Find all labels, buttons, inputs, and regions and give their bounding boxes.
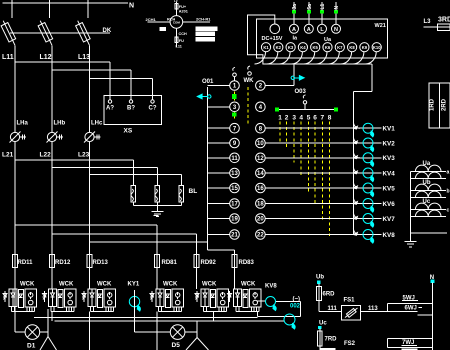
svg-text:FU: FU	[179, 39, 184, 43]
svg-text:KV4: KV4	[383, 170, 396, 177]
svg-text:6: 6	[313, 115, 317, 122]
svg-text:2RD: 2RD	[441, 98, 447, 111]
svg-text:RD12: RD12	[55, 260, 71, 266]
svg-text:K9: K9	[362, 45, 368, 50]
svg-text:RD81: RD81	[162, 260, 178, 266]
svg-text:FS1: FS1	[344, 298, 356, 304]
svg-text:LHb: LHb	[54, 121, 66, 127]
svg-text:a: a	[447, 170, 450, 176]
svg-text:WCK: WCK	[59, 282, 74, 288]
svg-text:C?: C?	[149, 106, 157, 112]
svg-text:A: A	[307, 27, 311, 33]
svg-text:L13: L13	[78, 54, 90, 61]
svg-text:A?: A?	[106, 106, 114, 112]
svg-text:20: 20	[257, 217, 264, 223]
svg-text:5: 5	[307, 115, 311, 122]
svg-text:D5: D5	[172, 342, 181, 349]
svg-text:002: 002	[290, 304, 301, 310]
svg-text:19: 19	[231, 217, 238, 223]
svg-text:KV5: KV5	[383, 185, 396, 192]
svg-text:2CH-R1: 2CH-R1	[196, 16, 211, 21]
svg-text:L1: L1	[320, 3, 326, 9]
svg-text:RD92: RD92	[201, 260, 217, 266]
svg-text:8: 8	[328, 115, 332, 122]
svg-text:13: 13	[231, 171, 238, 177]
svg-text:1: 1	[278, 115, 282, 122]
svg-text:KY1: KY1	[128, 282, 140, 288]
svg-text:FU+: FU+	[179, 5, 187, 9]
svg-text:D1: D1	[27, 343, 36, 350]
svg-text:b: b	[447, 189, 450, 195]
svg-text:O01: O01	[202, 79, 214, 85]
svg-text:(−): (−)	[293, 297, 301, 303]
svg-text:L23: L23	[78, 152, 90, 159]
svg-text:KV2: KV2	[383, 140, 396, 147]
svg-text:6WJ: 6WJ	[405, 306, 417, 312]
svg-text:Ub: Ub	[423, 180, 431, 186]
svg-text:L11: L11	[176, 44, 182, 48]
svg-text:KV7: KV7	[383, 216, 396, 223]
svg-text:K2: K2	[276, 45, 282, 50]
svg-text:WCK: WCK	[97, 282, 112, 288]
svg-text:WK: WK	[244, 78, 255, 84]
svg-text:WCK: WCK	[163, 282, 178, 288]
svg-text:K10: K10	[373, 45, 381, 50]
svg-text:5a: 5a	[307, 4, 313, 10]
svg-text:K1: K1	[263, 45, 269, 50]
svg-text:21: 21	[231, 233, 238, 239]
svg-text:KV8: KV8	[265, 284, 277, 290]
svg-text:W21: W21	[375, 23, 386, 29]
svg-text:17: 17	[231, 202, 238, 208]
svg-text:K3: K3	[288, 45, 294, 50]
svg-text:L22: L22	[40, 152, 52, 159]
svg-text:BL: BL	[189, 188, 198, 195]
svg-text:6RD: 6RD	[323, 292, 336, 298]
svg-text:16: 16	[257, 186, 264, 192]
svg-text:A: A	[292, 27, 296, 33]
svg-text:DC+15V: DC+15V	[262, 36, 283, 42]
svg-text:KV1: KV1	[383, 126, 396, 133]
svg-text:KV8: KV8	[383, 232, 396, 239]
svg-text:N: N	[334, 6, 340, 10]
svg-text:RD83: RD83	[239, 260, 255, 266]
svg-text:RCH: RCH	[167, 17, 175, 21]
svg-text:K4: K4	[300, 45, 306, 50]
svg-text:K8: K8	[349, 45, 355, 50]
svg-text:3RD: 3RD	[438, 17, 450, 24]
svg-text:11: 11	[231, 156, 238, 162]
svg-text:O03: O03	[295, 89, 307, 95]
svg-text:WCK: WCK	[202, 282, 217, 288]
svg-text:K6: K6	[325, 45, 331, 50]
svg-text:FS2: FS2	[344, 341, 356, 347]
svg-text:A201: A201	[179, 10, 188, 14]
svg-text:10: 10	[257, 141, 264, 147]
svg-text:L2: L2	[174, 0, 178, 3]
svg-text:111: 111	[328, 306, 338, 312]
svg-text:4: 4	[299, 115, 303, 122]
svg-text:WCK: WCK	[20, 282, 35, 288]
svg-text:22: 22	[257, 233, 264, 239]
svg-text:2CH1: 2CH1	[146, 17, 157, 22]
svg-text:L12: L12	[40, 54, 52, 61]
svg-text:15: 15	[231, 186, 238, 192]
svg-text:KV6: KV6	[383, 201, 396, 208]
svg-text:KV3: KV3	[383, 155, 396, 162]
svg-text:14: 14	[257, 171, 264, 177]
svg-text:K5: K5	[313, 45, 319, 50]
svg-text:LHa: LHa	[17, 121, 29, 127]
svg-text:RD11: RD11	[18, 260, 34, 266]
svg-text:113: 113	[368, 306, 378, 312]
svg-text:LHc: LHc	[91, 121, 103, 127]
svg-text:L3: L3	[424, 19, 432, 25]
svg-text:B?: B?	[127, 106, 135, 112]
svg-text:K7: K7	[337, 45, 343, 50]
svg-text:Ua: Ua	[423, 161, 431, 167]
svg-text:Ub: Ub	[316, 275, 324, 281]
svg-text:Uc: Uc	[319, 320, 327, 326]
svg-text:3a: 3a	[292, 4, 298, 10]
svg-text:1RD: 1RD	[430, 98, 436, 111]
svg-text:7RD: 7RD	[325, 337, 338, 343]
svg-text:2: 2	[285, 115, 289, 122]
svg-text:N: N	[334, 27, 338, 33]
svg-text:3: 3	[292, 115, 296, 122]
svg-text:RD13: RD13	[93, 260, 109, 266]
svg-text:L11: L11	[2, 54, 14, 61]
svg-text:Uc: Uc	[423, 199, 431, 205]
svg-text:Ua: Ua	[324, 37, 332, 43]
svg-text:7: 7	[320, 115, 324, 122]
svg-text:CCH: CCH	[179, 32, 187, 36]
svg-text:N: N	[129, 3, 134, 10]
svg-text:L21: L21	[2, 152, 14, 159]
svg-text:DK: DK	[103, 28, 112, 34]
svg-text:12: 12	[257, 156, 264, 162]
svg-text:c: c	[447, 208, 450, 214]
svg-text:18: 18	[257, 202, 264, 208]
svg-text:XS: XS	[124, 128, 133, 135]
svg-text:WCK: WCK	[241, 282, 256, 288]
